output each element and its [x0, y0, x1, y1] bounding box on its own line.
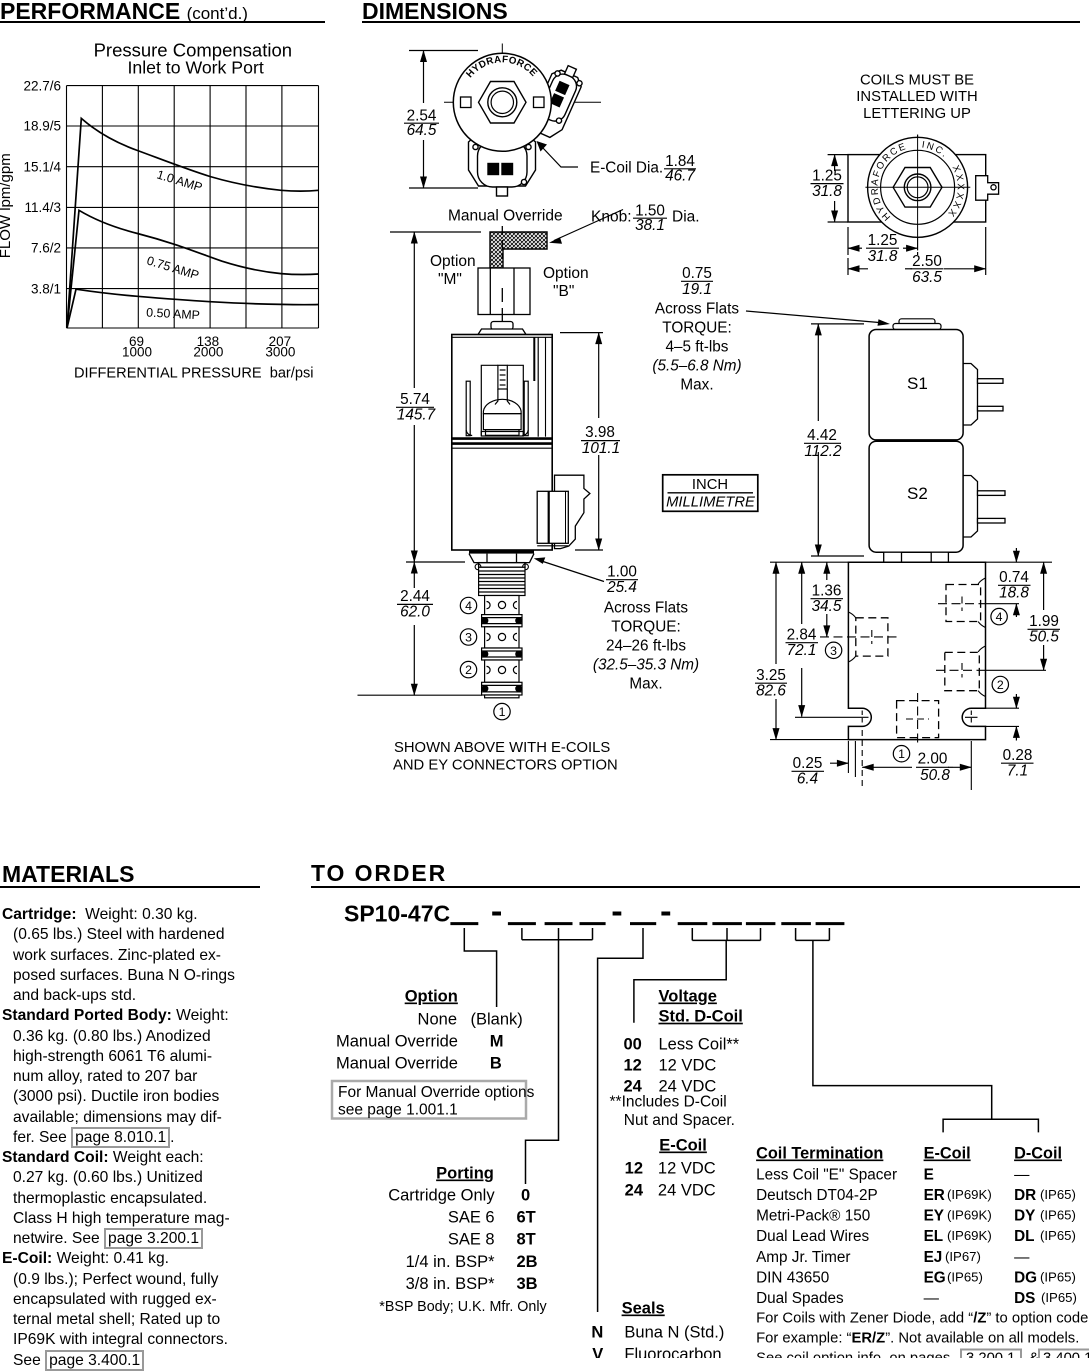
svg-text:Across Flats: Across Flats	[655, 301, 739, 318]
chart grid	[67, 86, 319, 328]
svg-text:12 VDC: 12 VDC	[659, 1056, 717, 1074]
curve 1.0 AMP	[67, 118, 319, 328]
port 4 (right)	[946, 585, 981, 622]
svg-text:&: &	[1029, 1351, 1039, 1359]
connector EY at bottom	[469, 134, 536, 196]
svg-text:Coil Termination: Coil Termination	[756, 1145, 883, 1163]
svg-text:4: 4	[996, 610, 1003, 624]
svg-text:3.8/1: 3.8/1	[31, 281, 61, 296]
svg-text:AND EY CONNECTORS OPTION: AND EY CONNECTORS OPTION	[393, 758, 618, 774]
svg-text:DG: DG	[1014, 1269, 1037, 1286]
svg-text:For Coils with Zener Diode, ad: For Coils with Zener Diode, add “/Z” to …	[756, 1311, 1089, 1327]
centerlines	[444, 44, 601, 197]
svg-text:Nut and Spacer.: Nut and Spacer.	[624, 1112, 735, 1129]
svg-text:63.5: 63.5	[912, 269, 942, 286]
svg-text:Amp Jr. Timer: Amp Jr. Timer	[756, 1249, 850, 1266]
leader 1.00/25.4	[540, 561, 604, 582]
svg-text:Cartridge Only: Cartridge Only	[388, 1187, 495, 1205]
svg-text:TORQUE:: TORQUE:	[611, 619, 680, 636]
svg-text:4.42: 4.42	[807, 427, 837, 444]
cartridge section 4	[485, 596, 519, 615]
svg-text:LETTERING UP: LETTERING UP	[863, 106, 971, 122]
svg-text:INCH: INCH	[692, 477, 728, 493]
svg-text:EG: EG	[924, 1269, 946, 1286]
svg-text:2.44: 2.44	[400, 588, 430, 605]
Coil Termination table	[756, 1145, 1062, 1308]
svg-text:Max.: Max.	[680, 377, 713, 394]
svg-text:6.4: 6.4	[797, 771, 818, 788]
svg-text:34.5: 34.5	[812, 598, 842, 615]
svg-text:DS: DS	[1014, 1290, 1035, 1307]
Option group	[336, 988, 523, 1073]
svg-text:2.00: 2.00	[918, 751, 948, 768]
svg-text:3: 3	[465, 631, 472, 645]
svg-text:4: 4	[465, 599, 472, 613]
tube body	[452, 335, 552, 551]
dim 5.74/145.7	[390, 232, 481, 562]
code blanks	[450, 922, 844, 925]
svg-text:(IP69K): (IP69K)	[947, 1208, 992, 1223]
hex nut	[479, 82, 527, 124]
svg-text:D-Coil: D-Coil	[1014, 1145, 1062, 1163]
svg-text:0.28: 0.28	[1003, 747, 1033, 764]
dim 1.25/31.8 vertical	[828, 155, 848, 222]
port number circles	[825, 608, 1008, 762]
dim 0.74/18.8	[1015, 548, 1017, 617]
svg-text:0.50 AMP: 0.50 AMP	[146, 306, 200, 323]
svg-text:145.7: 145.7	[397, 407, 436, 424]
svg-text:(IP69K): (IP69K)	[947, 1228, 992, 1243]
curve 0.75 AMP	[67, 210, 319, 328]
coil termination comb + drop	[796, 928, 830, 940]
svg-text:(5.5–6.8 Nm): (5.5–6.8 Nm)	[652, 358, 741, 375]
svg-text:1: 1	[898, 747, 905, 761]
svg-text:Metri-Pack® 150: Metri-Pack® 150	[756, 1208, 870, 1225]
svg-text:2000: 2000	[193, 345, 223, 360]
tree lines	[464, 928, 1038, 1312]
svg-text:TORQUE:: TORQUE:	[662, 320, 731, 337]
dim 0.25/6.4	[830, 762, 848, 764]
svg-text:INSTALLED WITH: INSTALLED WITH	[856, 89, 977, 105]
S1 connector	[957, 364, 1003, 426]
svg-text:50.8: 50.8	[920, 767, 950, 784]
svg-text:Buna N (Std.): Buna N (Std.)	[624, 1324, 724, 1342]
svg-text:Manual Override: Manual Override	[336, 1033, 458, 1051]
svg-text:1.36: 1.36	[812, 583, 842, 600]
S1 body	[869, 330, 963, 440]
port 1 (bottom)	[897, 701, 939, 738]
svg-text:Deutsch DT04-2P: Deutsch DT04-2P	[756, 1187, 878, 1204]
svg-text:0: 0	[521, 1187, 530, 1205]
dim 0.28/7.1	[1015, 694, 1017, 741]
curve 0.50 AMP	[67, 289, 319, 328]
svg-text:5.74: 5.74	[400, 391, 430, 408]
nose o-ring	[482, 682, 522, 695]
svg-text:—: —	[1014, 1167, 1030, 1184]
svg-text:(IP67): (IP67)	[945, 1249, 981, 1264]
svg-text:S1: S1	[907, 374, 928, 393]
curved lettering	[878, 147, 951, 219]
coil outer circle	[453, 53, 551, 151]
body outline	[848, 562, 985, 739]
right tab connector	[976, 176, 999, 201]
svg-text:7.6/2: 7.6/2	[31, 241, 61, 256]
svg-text:38.1: 38.1	[635, 217, 665, 234]
svg-text:"M": "M"	[438, 271, 462, 288]
seals drop	[598, 928, 643, 1312]
hex nut	[893, 168, 942, 208]
INCH/MILLIMETRE box	[663, 475, 758, 512]
svg-text:Less Coil**: Less Coil**	[659, 1035, 740, 1053]
svg-text:Option: Option	[405, 988, 458, 1006]
dim 3.98/101.1	[560, 333, 603, 550]
svg-text:1/4 in. BSP*: 1/4 in. BSP*	[406, 1253, 496, 1271]
svg-text:62.0: 62.0	[400, 604, 430, 621]
svg-text:8T: 8T	[517, 1231, 536, 1249]
coil lower section separator	[452, 439, 552, 449]
svg-text:3.400.1: 3.400.1	[1043, 1351, 1089, 1359]
dim 2.44/62.0	[358, 562, 483, 695]
svg-text:101.1: 101.1	[582, 440, 620, 457]
svg-text:MILLIMETRE: MILLIMETRE	[666, 495, 755, 511]
svg-text:1000: 1000	[122, 345, 152, 360]
svg-text:Max.: Max.	[629, 676, 662, 693]
coil circles	[868, 137, 968, 237]
HYDRAFORCE curved text	[470, 62, 533, 78]
dim 3.25/82.6	[775, 562, 777, 739]
svg-text:3.25: 3.25	[756, 667, 786, 684]
override stem	[478, 226, 530, 322]
svg-text:18.9/5: 18.9/5	[23, 119, 61, 134]
svg-text:112.2: 112.2	[804, 443, 842, 460]
y axis tick labels	[23, 78, 61, 296]
svg-text:00: 00	[623, 1035, 641, 1053]
svg-text:Manual Override: Manual Override	[336, 1055, 458, 1073]
centerlines	[865, 135, 970, 251]
svg-text:0.75 AMP: 0.75 AMP	[145, 253, 200, 282]
svg-text:12: 12	[625, 1160, 643, 1178]
coil nut on S1	[893, 319, 941, 330]
heading TO ORDER	[311, 860, 447, 887]
svg-text:72.1: 72.1	[787, 642, 817, 659]
port 3 (left)	[856, 618, 888, 656]
connector EY at right (angled)	[528, 61, 587, 141]
svg-text:Dia.: Dia.	[672, 209, 700, 226]
svg-text:**Includes D-Coil: **Includes D-Coil	[610, 1094, 727, 1111]
DIMENSIONS DRAWING SVG	[340, 28, 1089, 818]
manual override box	[332, 1081, 526, 1119]
Porting group	[388, 1165, 537, 1294]
svg-text:(32.5–35.3 Nm): (32.5–35.3 Nm)	[593, 657, 699, 674]
porting comb + drop	[522, 928, 593, 940]
svg-text:2.50: 2.50	[912, 253, 942, 270]
stubs under S2	[884, 552, 949, 562]
svg-text:2.84: 2.84	[787, 627, 817, 644]
svg-text:(IP65): (IP65)	[1040, 1208, 1076, 1223]
svg-text:24–26 ft-lbs: 24–26 ft-lbs	[606, 638, 686, 655]
svg-text:B: B	[490, 1055, 502, 1073]
x axis tick labels	[122, 334, 295, 359]
svg-text:Seals: Seals	[622, 1300, 665, 1318]
svg-text:0.75: 0.75	[682, 265, 712, 282]
svg-text:N: N	[591, 1324, 603, 1342]
svg-text:Option: Option	[543, 265, 589, 282]
dim 2.84/72.1	[801, 562, 803, 716]
svg-text:None: None	[418, 1011, 457, 1029]
svg-text:Dual Lead Wires: Dual Lead Wires	[756, 1228, 869, 1245]
svg-text:E-Coil: E-Coil	[659, 1137, 707, 1155]
svg-text:11.4/3: 11.4/3	[24, 200, 61, 215]
svg-text:1.99: 1.99	[1029, 613, 1059, 630]
knob (crosshatched)	[490, 232, 547, 268]
svg-text:(Blank): (Blank)	[471, 1011, 523, 1029]
svg-text:EJ: EJ	[924, 1249, 943, 1266]
svg-text:S2: S2	[907, 484, 928, 503]
svg-text:82.6: 82.6	[756, 683, 786, 700]
svg-text:3.200.1: 3.200.1	[966, 1351, 1015, 1359]
svg-text:6T: 6T	[517, 1209, 536, 1227]
S2 connector	[957, 476, 1005, 538]
svg-text:1: 1	[499, 705, 506, 719]
svg-text:E-Coil Dia.: E-Coil Dia.	[590, 160, 663, 177]
port 2 (right)	[945, 652, 980, 690]
threaded neck	[479, 567, 525, 595]
svg-text:ER: ER	[924, 1187, 945, 1204]
dim 1.25/31.8 horizontal	[848, 227, 918, 255]
armature internals	[466, 365, 528, 436]
svg-text:3B: 3B	[517, 1275, 538, 1293]
svg-text:1.00: 1.00	[607, 564, 637, 581]
svg-text:—: —	[924, 1290, 940, 1307]
svg-text:V: V	[592, 1346, 603, 1358]
cartridge section 2	[485, 660, 519, 682]
svg-text:For Manual Override options: For Manual Override options	[338, 1084, 535, 1101]
CHART SVG	[0, 28, 340, 388]
svg-text:*BSP Body; U.K. Mfr. Only: *BSP Body; U.K. Mfr. Only	[379, 1299, 547, 1315]
svg-text:COILS MUST BE: COILS MUST BE	[860, 72, 974, 88]
bottom extensions	[848, 730, 971, 790]
svg-text:SHOWN ABOVE WITH E-COILS: SHOWN ABOVE WITH E-COILS	[394, 740, 610, 756]
heading PERFORMANCE	[0, 0, 248, 25]
svg-text:7.1: 7.1	[1007, 763, 1028, 780]
svg-text:Fluorocarbon: Fluorocarbon	[624, 1346, 721, 1358]
dim 1.99/50.5	[1043, 562, 1045, 670]
hex nut below body	[469, 550, 534, 554]
mounting slot lines	[856, 711, 978, 725]
svg-text:15.1/4: 15.1/4	[23, 159, 61, 174]
E-Coil group	[625, 1137, 716, 1200]
svg-text:4–5 ft-lbs: 4–5 ft-lbs	[666, 339, 729, 356]
crosshair inner	[865, 135, 970, 251]
svg-text:DR: DR	[1014, 1187, 1036, 1204]
svg-text:Porting: Porting	[436, 1165, 494, 1183]
svg-text:SP10-47C: SP10-47C	[344, 901, 450, 927]
E-Coil Dia leader	[543, 148, 579, 168]
svg-text:1.25: 1.25	[812, 167, 842, 184]
svg-text:24: 24	[625, 1182, 644, 1200]
port number circles	[460, 597, 510, 720]
MATERIALS text	[2, 905, 312, 1371]
heading DIMENSIONS	[362, 0, 508, 25]
svg-text:(IP65): (IP65)	[1040, 1269, 1076, 1284]
dim 4.42/112.2	[811, 324, 864, 556]
svg-text:SAE 8: SAE 8	[448, 1231, 495, 1249]
svg-text:DIFFERENTIAL PRESSURE bar/psi: DIFFERENTIAL PRESSURE bar/psi	[74, 366, 314, 382]
svg-text:EY: EY	[924, 1208, 944, 1225]
dim 2.54/64.5	[409, 51, 478, 189]
Voltage group	[623, 988, 742, 1096]
svg-text:E-Coil: E-Coil	[924, 1145, 971, 1163]
svg-text:DIN 43650: DIN 43650	[756, 1269, 829, 1286]
svg-text:64.5: 64.5	[407, 122, 437, 139]
svg-text:31.8: 31.8	[812, 183, 842, 200]
svg-text:0.74: 0.74	[999, 569, 1029, 586]
svg-text:24 VDC: 24 VDC	[658, 1182, 716, 1200]
svg-text:(IP65): (IP65)	[1040, 1187, 1076, 1202]
svg-text:0.25: 0.25	[793, 755, 823, 772]
svg-text:3: 3	[830, 644, 837, 658]
svg-text:E: E	[924, 1167, 934, 1184]
coil rectangle	[848, 155, 986, 222]
side squares	[461, 97, 472, 108]
svg-text:See coil option info. on pages: See coil option info. on pages	[756, 1351, 950, 1359]
Seals group	[591, 1300, 724, 1364]
svg-text:12: 12	[623, 1056, 641, 1074]
o-ring band B	[482, 648, 522, 660]
svg-text:SAE 6: SAE 6	[448, 1209, 495, 1227]
svg-text:M: M	[490, 1033, 504, 1051]
svg-text:31.8: 31.8	[868, 248, 898, 265]
svg-text:Knob:: Knob:	[591, 209, 632, 226]
svg-text:12 VDC: 12 VDC	[658, 1160, 716, 1178]
heading MATERIALS	[2, 861, 134, 888]
right extensions	[986, 561, 1053, 563]
svg-text:22.7/6: 22.7/6	[23, 78, 61, 93]
top cap	[478, 322, 526, 335]
valve connector right	[537, 475, 590, 548]
svg-text:3000: 3000	[265, 345, 295, 360]
svg-text:19.1: 19.1	[682, 281, 712, 298]
svg-text:"B": "B"	[553, 283, 574, 300]
svg-text:—: —	[1014, 1249, 1030, 1266]
svg-text:Manual Override: Manual Override	[448, 208, 563, 225]
svg-text:For example: “ER/Z”. Not avail: For example: “ER/Z”. Not available on al…	[756, 1331, 1079, 1347]
svg-text:2: 2	[465, 663, 472, 677]
svg-text:(IP65): (IP65)	[1041, 1290, 1077, 1305]
dim 2.50/63.5	[848, 227, 986, 275]
svg-text:2B: 2B	[517, 1253, 538, 1271]
leader to coil nut	[746, 311, 879, 323]
svg-text:25.4: 25.4	[606, 579, 637, 596]
svg-text:Across Flats: Across Flats	[604, 600, 688, 617]
svg-text:3.98: 3.98	[585, 424, 615, 441]
svg-text:FLOW lpm/gpm: FLOW lpm/gpm	[0, 153, 14, 258]
svg-text:see page 1.001.1: see page 1.001.1	[338, 1102, 458, 1119]
svg-text:Voltage: Voltage	[659, 988, 717, 1006]
svg-text:Option: Option	[430, 253, 476, 270]
left extension of top edge	[770, 561, 848, 563]
cartridge section 3	[485, 627, 519, 648]
svg-text:DL: DL	[1014, 1228, 1034, 1245]
o-ring band A	[482, 615, 522, 627]
svg-text:Dual Spades: Dual Spades	[756, 1290, 844, 1307]
knob leader	[554, 210, 623, 241]
svg-text:Std. D-Coil: Std. D-Coil	[659, 1008, 743, 1026]
svg-text:(IP69K): (IP69K)	[947, 1187, 992, 1202]
dim 2.00/50.8	[862, 766, 971, 768]
svg-text:Less Coil "E" Spacer: Less Coil "E" Spacer	[756, 1167, 897, 1184]
voltage comb + drop	[692, 928, 760, 940]
svg-text:EL: EL	[924, 1228, 944, 1245]
svg-text:Inlet to Work Port: Inlet to Work Port	[127, 58, 263, 78]
svg-text:(IP65): (IP65)	[1040, 1228, 1076, 1243]
code dashes	[492, 912, 670, 916]
svg-text:DY: DY	[1014, 1208, 1035, 1225]
svg-text:(IP65): (IP65)	[947, 1269, 983, 1284]
zener footnote	[756, 1311, 1089, 1367]
svg-text:3/8 in. BSP*: 3/8 in. BSP*	[406, 1275, 496, 1293]
svg-text:50.5: 50.5	[1029, 629, 1059, 646]
dim 1.36/34.5	[826, 562, 828, 637]
svg-text:18.8: 18.8	[999, 585, 1029, 602]
S2 body	[869, 441, 963, 552]
TO ORDER content	[300, 890, 1089, 1358]
option drop	[464, 928, 496, 1007]
svg-text:1.25: 1.25	[868, 232, 898, 249]
svg-text:46.7: 46.7	[665, 168, 695, 185]
svg-text:2: 2	[997, 678, 1004, 692]
torque note (cartridge)	[593, 600, 699, 693]
